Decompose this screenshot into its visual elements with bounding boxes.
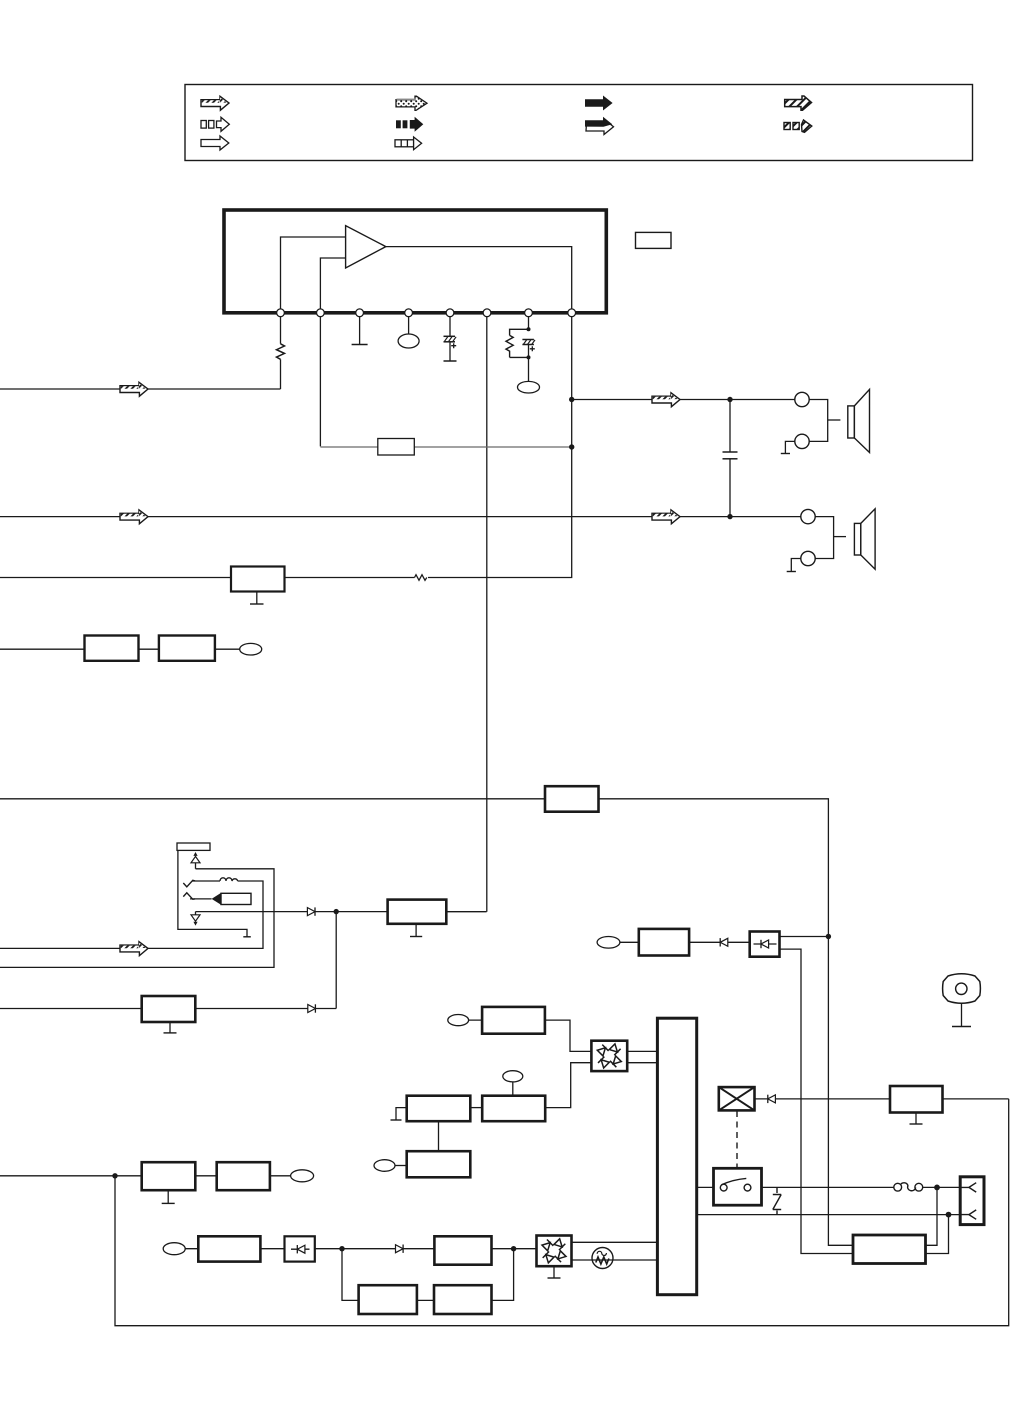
wire fuse line — [754, 1098, 1009, 1100]
wire detect line — [196, 911, 487, 913]
box block1 row649 — [85, 636, 139, 661]
capacitor oval above box B — [503, 1071, 523, 1096]
ground under box H — [162, 1190, 175, 1203]
box power ctrl — [142, 996, 196, 1022]
legend frame — [185, 85, 973, 161]
wire sub loop boxes E F — [342, 1249, 514, 1301]
box bottom E — [359, 1285, 417, 1314]
legend arrow hatched-band — [201, 96, 229, 110]
junction pin8-speaker1 — [569, 397, 574, 402]
wire ac filter row — [620, 941, 750, 943]
connector circle speaker2 - — [801, 551, 815, 565]
capacitor C2 pin 5 electrolytic — [444, 317, 457, 362]
resistor R2 on line 3 — [415, 573, 429, 582]
headphone jack sleeve plate — [177, 843, 210, 850]
connector circle speaker1 - — [795, 434, 809, 448]
surge gap Z — [773, 1187, 781, 1214]
wire speaker line 1 — [572, 399, 795, 401]
ground under tone box — [250, 592, 264, 605]
pin 7 — [525, 309, 533, 317]
connector circle speaker1 + — [795, 392, 809, 406]
wire audio input 1 — [0, 388, 281, 390]
wire pin 8 down — [0, 317, 572, 578]
stub to speaker2 — [834, 536, 846, 538]
box bottom G — [198, 1236, 260, 1261]
box low H — [142, 1162, 196, 1190]
speaker SP2 — [854, 509, 875, 569]
pin 1 — [277, 309, 285, 317]
transformer T1 — [657, 1018, 696, 1294]
diode box R — [750, 932, 780, 957]
arrow audio input 1 — [120, 382, 148, 396]
junction low row — [112, 1173, 117, 1178]
legend arrow hatched-squares — [784, 120, 812, 132]
stub to speaker1 — [828, 419, 841, 421]
wire speaker1 loop — [785, 400, 827, 454]
box rectifier aux B — [482, 1096, 545, 1122]
plug tip black triangle — [212, 893, 221, 905]
legend arrow solid-black — [585, 96, 613, 111]
ground under power ctrl box — [164, 1022, 177, 1033]
wire BR2 outputs to transformer — [572, 1242, 657, 1260]
speaker SP1 — [848, 389, 870, 452]
legend arrow open — [201, 136, 229, 150]
box relay P — [890, 1086, 943, 1113]
thermistor lamp — [592, 1248, 613, 1269]
capacitor oval ac row — [597, 937, 620, 949]
box regulator — [482, 1007, 545, 1034]
wire power ctrl input — [0, 1008, 336, 1010]
wire feedback horizontal — [320, 446, 571, 448]
small box right of IC — [636, 232, 672, 248]
wire pin 6 down — [486, 317, 488, 912]
pin 2 — [317, 309, 325, 317]
legend arrow segmented-open — [395, 137, 422, 150]
box rectifier aux A — [407, 1096, 471, 1122]
ground tick speaker1 — [781, 453, 790, 455]
legend arrow black-over-white — [585, 117, 614, 135]
diode D5 — [768, 1095, 776, 1103]
box bottom D — [434, 1236, 491, 1264]
resistor R1 under pin 1 — [277, 317, 285, 390]
up arrow jack sleeve — [191, 852, 200, 869]
wire box R outputs — [780, 937, 854, 1254]
box bottom F — [434, 1285, 492, 1314]
legend arrow black-squares-solid — [396, 117, 423, 132]
fuse F1 — [894, 1183, 923, 1191]
diode D1 — [307, 907, 315, 915]
wire op-amp input 1 — [281, 237, 346, 309]
power switch S1 — [714, 1168, 762, 1205]
pin 8 — [568, 309, 576, 317]
wire speaker2 loop — [791, 517, 833, 572]
wire contact to plug — [190, 898, 212, 900]
legend arrow stippled — [396, 96, 427, 110]
wire row y649 — [0, 648, 240, 650]
fuse holder X box — [719, 1087, 755, 1110]
box low I — [217, 1162, 270, 1190]
junction speaker2-cap — [727, 514, 732, 519]
junction bottom row 1 — [339, 1246, 344, 1251]
capacitor oval right of box I — [291, 1170, 314, 1182]
wire BR1 outputs to transformer — [627, 1051, 658, 1062]
wire op-amp input 2 — [320, 258, 345, 309]
wire box A to box C — [438, 1121, 440, 1151]
capacitor oval bottom row — [163, 1243, 185, 1255]
box tone network on line 3 — [231, 567, 285, 592]
wire pin 2 feedback — [319, 317, 321, 447]
wire tip contact line — [0, 881, 263, 948]
legend arrow squares-open — [201, 117, 229, 131]
pin 6 — [483, 309, 491, 317]
capacitor oval rect smoothing — [448, 1015, 469, 1026]
headphone jack body wire — [178, 850, 247, 936]
jack contact chevron down — [183, 880, 195, 887]
ground under box P — [910, 1113, 923, 1125]
box feedback network — [378, 439, 415, 456]
wire detect node down — [335, 912, 337, 1009]
ac plug icon — [943, 974, 981, 1027]
box aux C — [407, 1151, 471, 1177]
ground tick pin 3 — [352, 317, 368, 345]
arrow speaker line 1 — [652, 393, 680, 407]
wire box A to box B — [470, 1107, 482, 1109]
ground tick speaker2 — [787, 571, 796, 573]
junction pin8-feedback — [569, 444, 574, 449]
op-amp A1 — [346, 226, 386, 268]
diode D4 — [720, 938, 728, 946]
pin 5 — [446, 309, 454, 317]
junction speaker1-cap — [727, 397, 732, 402]
wire BR1 lower input — [545, 1063, 591, 1108]
wire junctions to box Q — [926, 1187, 949, 1253]
wire bottom row — [185, 1248, 536, 1250]
wire ac live — [697, 1186, 969, 1188]
ac connector box — [960, 1177, 984, 1225]
box mute — [545, 786, 599, 812]
pin 4 — [405, 309, 413, 317]
junction ac live — [934, 1185, 940, 1191]
wire oval to regulator box — [469, 1020, 592, 1051]
wire speaker line 2 — [0, 516, 801, 518]
diode box small — [285, 1236, 315, 1261]
wire rail 828 down — [828, 937, 853, 1246]
wire jack sleeve to right rail — [0, 869, 274, 968]
arrow headphone input — [120, 942, 148, 956]
ground under detect box — [410, 924, 422, 937]
wire ac neutral — [697, 1214, 969, 1216]
IC U1 audio power amplifier — [224, 210, 606, 313]
capacitor oval left of box C — [374, 1160, 407, 1172]
arrow speaker line 2 mid — [652, 510, 680, 524]
RC network pin 7 — [506, 317, 540, 394]
junction mute-rail — [826, 934, 831, 939]
legend arrow small-hatched — [785, 96, 812, 110]
ground under BR2 — [548, 1266, 561, 1278]
coil L1 in jack — [220, 878, 238, 881]
down arrow jack detect — [191, 912, 200, 926]
wire low row input — [0, 1175, 291, 1177]
box ac filter K — [639, 929, 689, 956]
capacitor C3 between speaker lines — [723, 400, 738, 517]
wire mute line y799 — [0, 799, 828, 937]
capacitor oval row649 — [240, 643, 262, 655]
diode D2 — [308, 1004, 316, 1012]
capacitor C1 pin 4 — [398, 317, 419, 349]
junction ac neutral — [946, 1212, 952, 1218]
jack contact chevron up — [183, 893, 195, 900]
diode D3 — [396, 1245, 404, 1253]
arrow speaker line 2 input — [120, 510, 148, 524]
box noise filter Q — [853, 1235, 926, 1264]
ground tick left of box A — [391, 1108, 407, 1120]
junction bottom row 2 — [511, 1246, 516, 1251]
junction detect node — [334, 909, 339, 914]
connector circle speaker2 + — [801, 509, 815, 523]
bridge rectifier BR2 — [537, 1236, 572, 1267]
box block2 row649 — [159, 636, 215, 661]
bridge rectifier BR1 — [591, 1041, 627, 1071]
box headphone detect — [388, 900, 447, 924]
ground tick jack body — [243, 936, 251, 938]
wire ground bus loop — [115, 1099, 1009, 1326]
dashed link fuse to switch — [736, 1111, 738, 1169]
plug body rectangle — [221, 893, 251, 904]
wire op-amp output to pin 8 — [386, 247, 572, 309]
pin 3 — [356, 309, 364, 317]
